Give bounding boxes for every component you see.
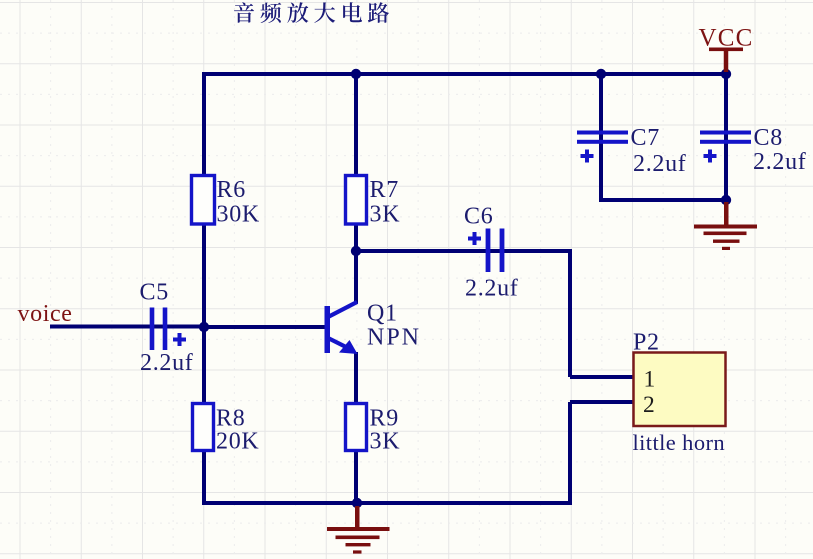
svg-text:NPN: NPN [367,325,421,351]
wire C7 top drop [599,74,603,142]
svg-text:P2: P2 [633,330,660,356]
svg-text:C5: C5 [140,280,169,306]
wire R9 bottom drop [354,452,358,505]
wire C8 top drop [724,74,728,142]
wire C6 to P2 pin 1 [504,251,570,377]
title 音频放大电路 [234,2,389,23]
ground bottom [327,506,390,554]
svg-text:Q1: Q1 [367,301,398,327]
node collector junction [351,246,361,256]
wire P2 pin 1 stub [570,375,634,379]
capacitor C8 [700,131,751,163]
wire C8 bottom [724,143,728,202]
resistor R8 [193,404,214,451]
svg-text:R7: R7 [370,177,399,203]
wire R8 bottom drop [202,452,206,505]
svg-text:30K: 30K [217,202,260,228]
resistor R9 [346,404,367,451]
capacitor C6 [468,229,504,273]
svg-text:VCC: VCC [699,25,754,52]
wire bottom rail [202,501,572,505]
wire R7 bottom to Q1 collector [354,225,358,304]
wire collector node to C6 [356,249,505,253]
resistor R7 [346,176,367,225]
svg-text:voice: voice [18,301,73,327]
wire P2 pin 2 stub [570,400,634,404]
wire R7 top drop [354,74,358,176]
svg-text:2.2uf: 2.2uf [140,350,194,376]
capacitor C5 [150,308,186,351]
svg-text:1: 1 [644,367,656,393]
wire top rail [204,74,727,176]
resistor R6 [192,176,215,225]
VCC power symbol [699,25,754,73]
wire node A to Q1 base [204,325,325,329]
connector P2 [634,353,726,427]
wire voice to C5 [50,325,168,329]
svg-text:2.2uf: 2.2uf [753,149,807,175]
wire C5 to node A [167,325,206,329]
capacitor C7 [577,131,628,163]
svg-text:20K: 20K [216,429,259,455]
wire R6 bottom to R8 top [202,225,206,403]
wire Q1 emitter to R9 [354,352,358,403]
svg-text:R6: R6 [217,177,246,203]
svg-text:C7: C7 [631,125,660,151]
svg-text:little horn: little horn [633,430,726,455]
svg-text:C8: C8 [754,125,783,151]
svg-text:C6: C6 [464,204,493,230]
wire C7 bottom to corner [601,143,726,200]
node A C5 junction [199,322,209,332]
wire P2 pin 2 down to bottom rail [568,402,572,505]
ground top right [694,202,757,250]
node junction top C7 [596,69,606,79]
node bottom ground junction [352,498,362,508]
svg-text:2.2uf: 2.2uf [633,151,687,177]
svg-text:2.2uf: 2.2uf [465,276,519,302]
node C8 ground junction [721,195,731,205]
transistor Q1 [325,302,358,354]
node junction top VCC corner [721,69,731,79]
svg-text:2: 2 [643,392,655,418]
svg-text:3K: 3K [370,202,401,228]
node junction top R7 [351,69,361,79]
svg-text:3K: 3K [370,429,401,455]
